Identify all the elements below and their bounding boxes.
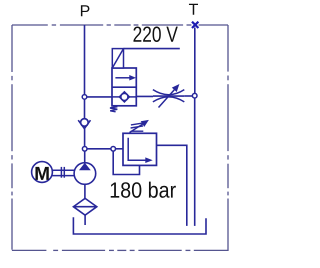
port T crossing mark (x) (192, 22, 198, 28)
wire: node to check valve (84, 99, 86, 119)
shaft coupling (52, 167, 74, 178)
suction filter (73, 198, 96, 215)
arrow flow path (actuated position) (115, 77, 130, 79)
valve body two positions (112, 68, 136, 106)
internal flow path arrow (128, 138, 146, 160)
node: pump outlet junction (82, 147, 87, 152)
wire: relief node to relief valve (116, 148, 124, 150)
tank (reservoir) (73, 217, 206, 234)
electric motor M (32, 162, 53, 183)
wire: node down to pump (84, 151, 86, 163)
wire: throttle to T node (184, 95, 192, 97)
node: T line junction (192, 93, 197, 98)
solenoid operated 2/2 directional valve (110, 49, 136, 112)
wire: valve inlet from P node (87, 96, 112, 98)
wire: relief valve outlet to tank (157, 145, 187, 226)
port T label (189, 4, 198, 15)
wire: pump node to relief node (87, 148, 111, 150)
wire: pump to filter (84, 184, 86, 198)
pilot line (113, 151, 139, 174)
seated check (rest position) (119, 92, 129, 102)
solenoid box with diagonal (112, 49, 123, 68)
label 180 bar (111, 182, 176, 198)
wire: T return line from port T to tank (194, 28, 196, 226)
node: relief valve tee junction (111, 147, 116, 152)
node: P line / valve feed junction (82, 95, 87, 100)
port P label (81, 5, 90, 16)
pressure relief valve (113, 121, 156, 175)
variable throttle (flow control) valve (153, 85, 184, 108)
hydraulic pump (74, 163, 96, 185)
wire: valve outlet to throttle (136, 95, 153, 97)
wire: filter dip tube into tank (84, 215, 86, 225)
wire: P supply line down from border (84, 25, 86, 95)
220 V leader line (124, 48, 180, 50)
label 220 V (133, 26, 177, 42)
check valve (ball in seat) (78, 119, 90, 129)
wire: check valve to pump node (84, 129, 86, 147)
adjustable spring (131, 130, 144, 132)
enclosure boundary (dash-dot manifold frame) (12, 25, 228, 251)
return spring (110, 107, 117, 112)
